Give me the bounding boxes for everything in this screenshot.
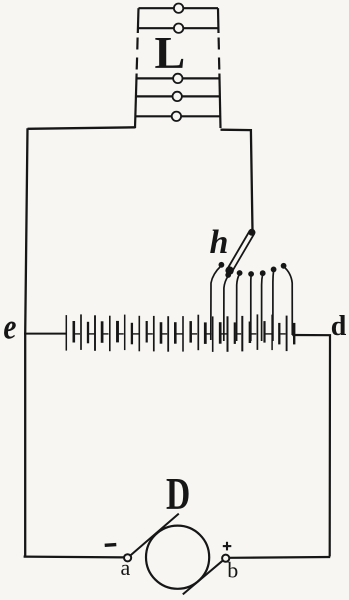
wire: left side (e branch): [25, 128, 27, 556]
wire: battery to d corner: [292, 335, 330, 557]
minus sign: [105, 543, 117, 547]
switch lever h: [225, 229, 255, 275]
lamp circles: [172, 4, 184, 122]
brush line a: [131, 514, 179, 556]
wire: bottom left to brush a: [24, 555, 125, 558]
contact 6 tap wire: [272, 271, 275, 342]
svg-text:d: d: [331, 311, 347, 342]
svg-text:e: e: [3, 308, 16, 347]
battery cells (series): [66, 314, 294, 352]
label e: [3, 308, 16, 347]
terminal b: [222, 555, 229, 562]
contact 5 tap wire: [262, 274, 263, 341]
svg-text:L: L: [155, 27, 186, 78]
contact 4 tap wire: [250, 275, 252, 341]
contact 5: [260, 270, 266, 276]
plus sign: [223, 542, 232, 551]
contact 6: [271, 267, 277, 273]
wire: lamp bank to switch pivot: [221, 130, 253, 231]
svg-text:D: D: [166, 468, 190, 519]
contact 4: [248, 271, 254, 277]
contact 1 tap wire: [211, 266, 222, 341]
contact 7 tap wire: [284, 267, 293, 336]
svg-text:a: a: [121, 555, 131, 580]
terminal a: [124, 554, 131, 561]
svg-text:b: b: [227, 558, 238, 583]
wire: brush b to bottom right: [229, 556, 330, 559]
wire: lamp bank to top-left corner: [28, 127, 136, 129]
contact 2 tap wire: [224, 276, 228, 341]
contact 3 tap wire: [237, 274, 240, 341]
contact 3: [237, 270, 243, 276]
dynamo D commutator: [146, 526, 209, 589]
brush line b: [183, 560, 223, 594]
svg-text:h: h: [210, 224, 229, 261]
contact 7: [281, 263, 287, 269]
contact 1: [219, 262, 225, 268]
contact 2: [225, 272, 231, 278]
label D: [166, 468, 190, 519]
lamp bank L: [135, 8, 221, 128]
wire: left lead to battery: [24, 333, 67, 335]
